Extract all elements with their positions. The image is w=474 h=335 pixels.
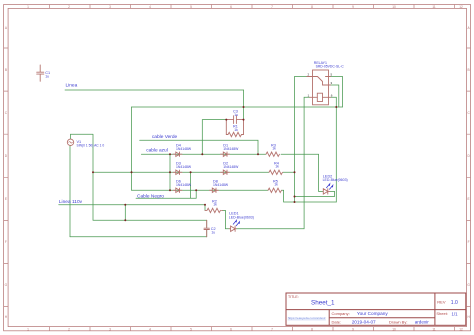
svg-text:Cable Negro: Cable Negro <box>137 193 164 199</box>
resistor R3 <box>266 152 280 156</box>
junction coil-right drop / y107 bus <box>335 106 337 108</box>
svg-text:D: D <box>467 154 470 158</box>
junction D6 out / Cable Negro drop <box>195 189 197 191</box>
svg-text:REV: REV <box>437 300 446 305</box>
junction pin2 vertical / R4 out <box>294 171 296 173</box>
svg-text:Linea 110v: Linea 110v <box>59 199 83 205</box>
junction dots <box>92 106 337 221</box>
svg-text:1k: 1k <box>275 165 279 169</box>
svg-text:1N4148W: 1N4148W <box>176 183 192 187</box>
wire row1 horizontal cable azul <box>141 153 318 155</box>
svg-text:C: C <box>467 111 470 115</box>
wire net Linea horizontal <box>65 89 244 91</box>
svg-text:LED-Blue(0603): LED-Blue(0603) <box>229 216 254 220</box>
svg-text:B: B <box>468 68 470 72</box>
LED2 arrows <box>327 184 333 189</box>
junction left drop / row2 <box>131 171 133 173</box>
wire LED2 anode drop <box>319 154 323 191</box>
svg-text:G: G <box>5 283 8 287</box>
svg-text:B: B <box>5 68 7 72</box>
svg-text:SIN(0 1 50) AC 1 0: SIN(0 1 50) AC 1 0 <box>77 144 105 148</box>
svg-text:cable azul: cable azul <box>146 147 168 153</box>
TITLEBLOCK <box>286 293 466 325</box>
junction C3 drop / row1 <box>201 153 203 155</box>
net and component labels blue <box>59 83 178 205</box>
junction C3 right node <box>243 119 245 121</box>
wire relay pin5 corner <box>331 77 343 108</box>
diode D3 <box>173 170 182 174</box>
svg-text:Sheet:: Sheet: <box>436 311 448 316</box>
diode D4 <box>173 152 182 156</box>
capacitor C3 <box>226 116 243 124</box>
svg-text:Your Company: Your Company <box>357 311 388 316</box>
svg-text:6: 6 <box>230 5 232 9</box>
wire relay coil right long drop <box>331 97 337 202</box>
svg-text:6: 6 <box>331 93 333 97</box>
voltage source V1 <box>67 139 73 145</box>
capacitor C2 <box>204 220 209 237</box>
svg-text:F: F <box>5 240 7 244</box>
svg-text:https://easyeda.com/ardexir: https://easyeda.com/ardexir <box>288 316 326 320</box>
svg-text:Date:: Date: <box>332 320 342 325</box>
wire Cable Negro horizontal <box>136 197 196 199</box>
resistor R4 <box>269 170 283 174</box>
wire horizontal bus y107 <box>132 106 343 108</box>
wire R2 out to LED1 <box>223 210 230 228</box>
svg-text:1u: 1u <box>211 231 215 235</box>
svg-text:F: F <box>468 240 470 244</box>
junction D3 out / Cable Negro drop <box>190 171 192 173</box>
junction cable Verde drop / row1 <box>257 153 259 155</box>
components red <box>37 65 331 237</box>
wire relay pin2 to left vertical <box>295 77 307 203</box>
svg-text:6: 6 <box>230 327 232 331</box>
svg-text:1.0: 1.0 <box>451 300 458 306</box>
wire R5 out corner to y202 rail <box>284 190 337 202</box>
svg-text:5: 5 <box>190 5 192 9</box>
diode D6 <box>173 188 182 192</box>
wire left drop x131.5 from y107 to row3 <box>131 107 133 190</box>
svg-text:11: 11 <box>432 327 436 331</box>
wire Linea drop to node bus <box>243 90 245 120</box>
LED arrows blue <box>233 184 333 226</box>
svg-text:7: 7 <box>271 5 273 9</box>
LED LED2 <box>323 189 330 194</box>
svg-text:1N4148W: 1N4148W <box>223 147 239 151</box>
svg-text:3: 3 <box>109 327 111 331</box>
diode D1 <box>221 152 230 156</box>
resistor R2 <box>205 208 223 212</box>
junction anode bus / row1 <box>169 153 171 155</box>
diode D8 <box>210 188 219 192</box>
svg-text:1N4148W: 1N4148W <box>176 165 192 169</box>
wire C2 top feed <box>206 220 208 227</box>
wire Linea 110v horizontal <box>59 204 205 206</box>
svg-text:5: 5 <box>331 73 333 77</box>
svg-text:Linea: Linea <box>66 83 78 89</box>
svg-text:10: 10 <box>392 327 396 331</box>
svg-text:D: D <box>5 154 8 158</box>
junction C3 left node <box>225 119 227 121</box>
svg-text:Sheet_1: Sheet_1 <box>311 300 335 307</box>
wire V1 bottom drop <box>69 146 71 237</box>
svg-text:cable Verde: cable Verde <box>152 134 178 140</box>
svg-text:5: 5 <box>190 327 192 331</box>
svg-text:H: H <box>467 315 470 319</box>
wire drop 110v to C2 rail <box>124 205 126 221</box>
junction anode bus / row2 <box>169 171 171 173</box>
wire LED1 cathode to relay coil left <box>236 97 309 228</box>
svg-text:2019-04-07: 2019-04-07 <box>352 319 376 324</box>
svg-text:12: 12 <box>459 327 463 331</box>
wire row3 horizontal <box>132 189 284 191</box>
junction Linea drop / y107 bus <box>243 106 245 108</box>
svg-text:2: 2 <box>308 73 310 77</box>
svg-text:SRD-05VDC-SL-C: SRD-05VDC-SL-C <box>316 65 345 69</box>
junction C2 branch / y220 rail <box>124 219 126 221</box>
svg-text:1: 1 <box>27 327 29 331</box>
svg-text:1u: 1u <box>45 75 49 79</box>
svg-text:Drawn By:: Drawn By: <box>389 320 407 325</box>
svg-text:A: A <box>468 26 471 30</box>
svg-text:C: C <box>5 111 8 115</box>
svg-text:1: 1 <box>308 93 310 97</box>
svg-text:E: E <box>468 197 470 201</box>
svg-text:A: A <box>5 26 8 30</box>
LED LED1 <box>229 226 236 231</box>
wire row2 horizontal <box>93 171 295 173</box>
svg-text:E: E <box>5 197 7 201</box>
svg-text:Company:: Company: <box>332 311 350 316</box>
junction pin2 vertical / y202 rail <box>294 201 296 203</box>
wire C3 left node to drop <box>202 120 226 155</box>
svg-text:1k: 1k <box>272 147 276 151</box>
svg-text:1N4148W: 1N4148W <box>223 165 239 169</box>
svg-text:9: 9 <box>352 327 354 331</box>
wire V1 top loop to row2 and bottom rail <box>71 134 207 220</box>
svg-text:8: 8 <box>311 5 313 9</box>
svg-text:7: 7 <box>271 327 273 331</box>
svg-text:12: 12 <box>459 5 463 9</box>
LED1 arrows <box>233 220 239 225</box>
svg-text:3: 3 <box>331 81 333 85</box>
junction 110v / C2 branch <box>124 204 126 206</box>
wire anode bus vertical x170 <box>169 154 171 190</box>
junction 110v / R2 feed <box>204 204 206 206</box>
svg-text:2: 2 <box>68 327 70 331</box>
svg-text:1/1: 1/1 <box>452 311 459 316</box>
svg-text:1N4148W: 1N4148W <box>213 183 229 187</box>
svg-text:4: 4 <box>149 327 151 331</box>
wire drop D6 out to Cable Negro <box>195 190 197 198</box>
junction V1 feed / row2 <box>92 171 94 173</box>
relay RELAY1 body <box>307 70 331 105</box>
svg-text:1N4148W: 1N4148W <box>176 147 192 151</box>
svg-text:TITLE:: TITLE: <box>288 295 299 299</box>
wire bottom rail <box>70 236 207 238</box>
capacitor C1 <box>37 65 44 81</box>
svg-text:9: 9 <box>352 5 354 9</box>
svg-text:H: H <box>5 315 8 319</box>
svg-text:1k: 1k <box>234 128 238 132</box>
svg-text:1k: 1k <box>274 183 278 187</box>
junction anode bus / row3 <box>169 189 171 191</box>
svg-text:4: 4 <box>149 5 151 9</box>
svg-text:ardexir: ardexir <box>415 319 430 324</box>
svg-text:1u: 1u <box>234 113 238 117</box>
diode D2 <box>221 170 230 174</box>
resistor R1 <box>226 120 243 137</box>
svg-text:G: G <box>467 283 470 287</box>
svg-text:1: 1 <box>27 5 29 9</box>
junction pin2 vertical / LED2 return <box>294 196 296 198</box>
wire cable Verde horizontal and drop <box>140 140 258 154</box>
svg-text:LED-Blue(0603): LED-Blue(0603) <box>323 178 348 182</box>
wire C2 bottom to rail <box>206 230 208 237</box>
wire LED2 cathode return <box>295 191 335 196</box>
relay pin numbers <box>308 73 333 98</box>
wire drop D3 out to Cable Negro <box>190 172 192 198</box>
svg-text:11: 11 <box>432 5 436 9</box>
svg-text:2: 2 <box>68 5 70 9</box>
svg-text:8: 8 <box>311 327 313 331</box>
wire R2 feed drop <box>204 205 206 211</box>
wire relay pin3 corner <box>331 85 339 107</box>
svg-text:10: 10 <box>392 5 396 9</box>
svg-text:1k: 1k <box>213 203 217 207</box>
svg-text:3: 3 <box>109 5 111 9</box>
resistor R5 <box>268 188 282 192</box>
